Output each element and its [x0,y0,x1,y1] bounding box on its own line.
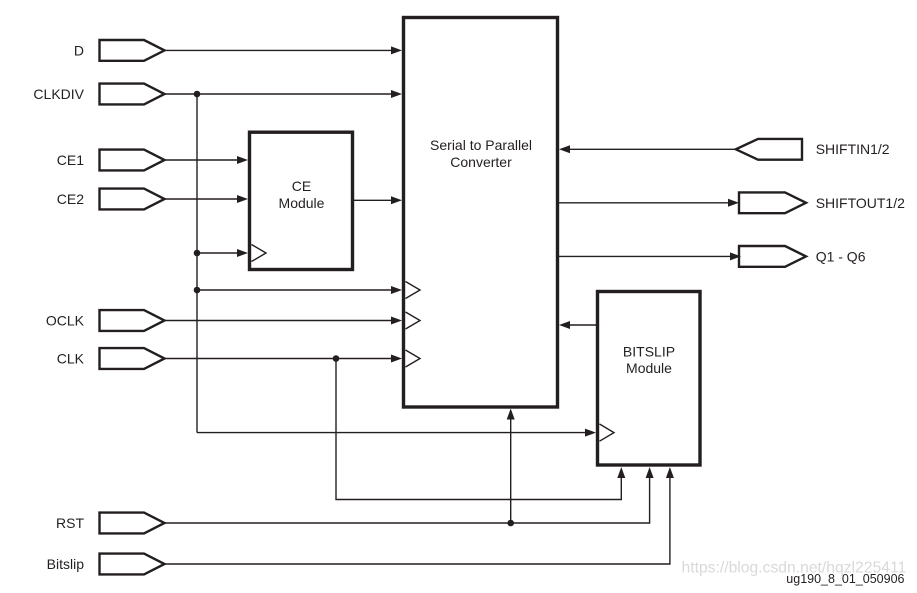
wire CLKDIV to converter [165,90,403,98]
svg-text:CE1: CE1 [57,152,84,168]
node CE clock junction [194,250,201,257]
wire RST branch up to converter [510,419,512,523]
wire CLK to converter [165,355,403,363]
wire clock to CE module [197,249,248,257]
input port CLKDIV [33,84,164,105]
svg-text:Serial to Parallel: Serial to Parallel [430,137,532,153]
wire CLKDIV vertical trunk [196,94,198,433]
arrowhead RST into BITSLIP [646,467,654,478]
svg-text:CLK: CLK [57,351,85,367]
wire converter to Q1-Q6 [559,252,741,260]
wire D to converter [165,46,403,54]
input port Bitslip [47,554,165,575]
input port CE2 [57,189,165,210]
svg-text:RST: RST [56,515,84,531]
wire CLKDIV branch to converter clock 1 [197,286,402,294]
svg-text:Module: Module [279,195,325,211]
wire CE2 to CE module [165,195,249,203]
svg-text:Converter: Converter [450,154,512,170]
wire CLKDIV trunk to BITSLIP clock [197,429,596,437]
svg-text:Bitslip: Bitslip [47,556,85,572]
output port SHIFTIN1/2 [736,139,890,160]
input port RST [56,513,165,534]
wire OCLK to converter [165,317,403,325]
input port CLK [57,348,165,369]
wire Bitslip to BITSLIP module [165,478,670,564]
svg-text:ug190_8_01_050906: ug190_8_01_050906 [786,572,904,586]
output port SHIFTOUT1/2 [739,192,905,213]
clock input triangle BITSLIP [600,424,615,441]
svg-text:CE: CE [292,178,311,194]
wire RST to BITSLIP [165,478,650,523]
input port CE1 [57,150,165,171]
block BITSLIP Module [598,292,701,466]
svg-text:Module: Module [626,360,672,376]
svg-text:BITSLIP: BITSLIP [623,344,675,360]
node CLKDIV junction [194,91,201,98]
svg-text:CE2: CE2 [57,191,84,207]
arrowhead CLK branch into BITSLIP [617,467,625,478]
node CLK junction [333,355,340,362]
node CLKDIV branch to converter clock [194,287,201,294]
svg-text:OCLK: OCLK [46,313,85,329]
input port OCLK [46,310,165,331]
arrowhead Bitslip into BITSLIP [666,467,674,478]
output port Q1 - Q6 [739,246,866,267]
block CE Module [250,132,353,269]
clock input triangle converter 1 [406,282,421,299]
svg-text:SHIFTIN1/2: SHIFTIN1/2 [816,141,890,157]
node RST junction [507,520,514,527]
wire converter to SHIFTOUT [559,199,739,207]
clock input triangle CE module [252,245,267,262]
wire SHIFTIN to converter [559,145,736,153]
wire CLK branch down [336,359,621,500]
wire CE1 to CE module [165,156,249,164]
svg-text:SHIFTOUT1/2: SHIFTOUT1/2 [816,195,905,211]
wire BITSLIP output to converter [559,321,596,329]
wire CE module output to converter [353,196,402,204]
clock input triangle converter 3 [406,350,421,367]
svg-text:Q1 - Q6: Q1 - Q6 [816,248,866,264]
svg-text:CLKDIV: CLKDIV [33,86,84,102]
input port D [74,40,165,61]
clock input triangle converter 2 [406,312,421,329]
arrowhead RST into converter bottom [507,409,515,420]
svg-text:D: D [74,42,84,58]
block U1 Serial to Parallel Converter [404,18,558,408]
